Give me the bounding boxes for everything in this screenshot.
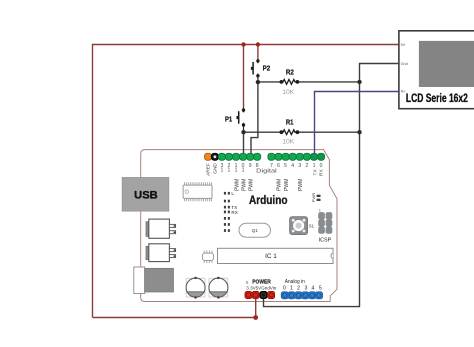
pin A1	[288, 292, 295, 299]
svg-text:Arduino: Arduino	[249, 193, 288, 207]
small DIP8	[202, 251, 213, 264]
svg-text:10K: 10K	[282, 89, 295, 96]
svg-text:3: 3	[298, 163, 301, 169]
svg-text:0: 0	[320, 163, 323, 169]
resistor R2	[280, 69, 300, 95]
svg-text:ICSP: ICSP	[319, 237, 332, 243]
pin A3	[302, 292, 309, 299]
pushbutton P1	[225, 107, 245, 132]
svg-text:1: 1	[319, 208, 321, 212]
svg-text:LCD Serie 16x2: LCD Serie 16x2	[406, 91, 468, 105]
pin 9	[247, 153, 254, 160]
svg-text:GND: GND	[213, 163, 219, 174]
pin AREF	[205, 153, 212, 160]
wire: red drop to P1	[243, 45, 245, 108]
svg-text:PWM: PWM	[249, 179, 255, 191]
pin 2	[303, 153, 310, 160]
reset button S1	[290, 217, 315, 235]
pin Gnd	[260, 292, 267, 299]
wire: P2 junction to R2	[258, 81, 282, 83]
pin 3	[296, 153, 303, 160]
wire: R2 to ground	[297, 81, 360, 83]
digital pin header	[205, 153, 325, 160]
analog header pins	[281, 292, 322, 299]
junction node: 5V rail / P1	[241, 42, 245, 46]
svg-text:1: 1	[313, 163, 316, 169]
svg-text:Analog in: Analog in	[285, 279, 305, 285]
wire: red 5V rail (left vertical + top horizontal to LCD 5V)	[93, 45, 399, 318]
svg-text:R2: R2	[286, 69, 294, 76]
Arduino board outline	[141, 150, 337, 302]
wire: red drop to P2	[257, 45, 259, 58]
pushbutton P2	[251, 58, 270, 82]
DIP IC U2	[183, 182, 212, 201]
wire: black ground net	[264, 64, 399, 307]
svg-text:PWM: PWM	[298, 179, 304, 191]
pin 4	[289, 153, 296, 160]
svg-text:5V: 5V	[401, 43, 406, 47]
svg-text:TX: TX	[312, 169, 318, 176]
pin Vin	[268, 292, 275, 299]
svg-text:2: 2	[305, 163, 308, 169]
wire: P1 to pin 10	[243, 132, 245, 157]
USB connector	[122, 177, 169, 211]
junction node: 5V bottom corner	[253, 315, 258, 320]
svg-text:P1: P1	[225, 117, 232, 124]
junction node: R1 / ground bus	[357, 130, 361, 134]
svg-text:P2: P2	[263, 66, 271, 73]
svg-text:3: 3	[304, 286, 307, 292]
POWER / Analog labels	[246, 279, 322, 292]
svg-text:S1: S1	[309, 223, 315, 228]
LCD module: body	[399, 31, 474, 109]
svg-text:PWM: PWM	[241, 179, 247, 191]
pin GND	[211, 153, 218, 160]
crystal Q1	[239, 223, 271, 237]
ICSP header	[318, 208, 332, 243]
svg-text:6: 6	[277, 163, 280, 169]
svg-text:1: 1	[242, 167, 245, 173]
junction node: R2 / ground bus	[357, 80, 361, 84]
svg-text:PWM: PWM	[284, 179, 290, 191]
svg-text:RX: RX	[231, 210, 237, 215]
svg-text:PWR: PWR	[311, 193, 316, 202]
pin A0	[281, 292, 288, 299]
svg-text:RX: RX	[319, 169, 325, 176]
svg-text:0: 0	[283, 286, 286, 292]
pin 5V	[252, 292, 259, 299]
PWR led + label	[311, 193, 320, 202]
pin 10	[240, 153, 247, 160]
svg-text:USB: USB	[134, 190, 158, 202]
pin A2	[295, 292, 302, 299]
svg-text:3.3V5VGndVin: 3.3V5VGndVin	[246, 285, 276, 290]
svg-text:Gnd: Gnd	[401, 62, 408, 66]
svg-text:1: 1	[290, 286, 293, 292]
PWM labels	[234, 179, 304, 191]
power jack	[134, 267, 174, 294]
svg-text:R1: R1	[286, 120, 294, 127]
svg-text:1: 1	[227, 167, 230, 173]
pin 7	[268, 153, 275, 160]
digital header labels	[206, 163, 325, 176]
wire: red drop to Arduino 5V pin	[255, 295, 257, 318]
svg-text:AREF: AREF	[206, 163, 212, 176]
voltage regulator VR1	[146, 219, 176, 238]
wire: R1 to ground	[297, 131, 360, 133]
svg-text:Q1: Q1	[252, 228, 259, 233]
junction node: P2 / R2	[256, 80, 260, 84]
pin 3.3V	[245, 292, 252, 299]
svg-text:PWM: PWM	[234, 179, 240, 191]
power header pins	[245, 292, 275, 299]
svg-text:4: 4	[291, 163, 294, 169]
junction node: 5V rail / P2	[256, 42, 260, 46]
IC 1 (MCU)	[218, 248, 334, 263]
wire: P2 to pin 9	[251, 82, 258, 157]
wire: red bottom horizontal	[93, 317, 256, 319]
pin 6	[275, 153, 282, 160]
SMD LED/resistor row (L, TX, RX column)	[224, 191, 238, 232]
voltage regulator VR2	[146, 244, 176, 262]
pin 12	[225, 153, 232, 160]
svg-text:1: 1	[220, 167, 223, 173]
pin 11	[233, 153, 240, 160]
junction node: P1 / R1	[241, 130, 245, 134]
pin 1 TX	[311, 153, 318, 160]
svg-text:5: 5	[319, 286, 322, 292]
svg-text:4: 4	[312, 286, 315, 292]
pin 5	[282, 153, 289, 160]
pin 0 RX	[318, 153, 325, 160]
svg-text:5: 5	[284, 163, 287, 169]
wire: blue serial TX to LCD Rx	[315, 92, 399, 158]
pin 13	[218, 153, 225, 160]
svg-text:IC 1: IC 1	[265, 253, 277, 260]
svg-text:9: 9	[249, 163, 252, 169]
pin 8	[254, 153, 261, 160]
svg-text:10K: 10K	[282, 139, 295, 146]
capacitor C1	[186, 277, 205, 299]
pin A5	[316, 292, 323, 299]
svg-text:1: 1	[235, 167, 238, 173]
svg-text:2: 2	[297, 286, 300, 292]
wire: P1 junction to R1	[244, 131, 282, 133]
pin A4	[309, 292, 316, 299]
svg-text:Digital: Digital	[256, 169, 277, 175]
svg-text:PWM: PWM	[277, 179, 283, 191]
resistor R1	[280, 120, 300, 146]
svg-text:Rx: Rx	[401, 89, 406, 93]
svg-text:L: L	[231, 191, 234, 196]
capacitor C2	[209, 277, 228, 299]
